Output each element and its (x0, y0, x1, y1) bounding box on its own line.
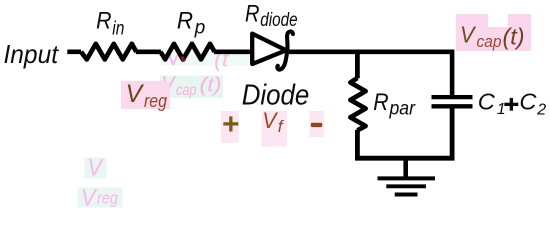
svg-text:R: R (96, 8, 111, 35)
svg-text:R: R (245, 0, 260, 27)
svg-text:R: R (177, 8, 193, 35)
svg-text:R: R (373, 89, 388, 116)
svg-text:V: V (126, 80, 145, 108)
svg-text:C: C (519, 89, 537, 115)
svg-text:reg: reg (144, 90, 168, 111)
svg-text:reg: reg (97, 189, 118, 208)
svg-text:2: 2 (536, 101, 546, 118)
svg-text:V: V (81, 185, 97, 211)
svg-text:C: C (478, 89, 496, 115)
svg-text:(t): (t) (200, 74, 222, 97)
svg-text:Diode: Diode (242, 80, 310, 112)
svg-text:Input: Input (4, 39, 60, 69)
svg-text:diode: diode (260, 10, 297, 31)
svg-text:par: par (389, 98, 417, 120)
svg-text:(t): (t) (503, 24, 525, 50)
svg-text:cap: cap (477, 33, 502, 51)
svg-text:+: + (222, 108, 240, 141)
svg-text:cap: cap (176, 82, 197, 99)
svg-text:V: V (460, 22, 477, 48)
svg-text:V: V (262, 108, 278, 133)
svg-text:in: in (112, 18, 124, 39)
svg-text:p: p (194, 18, 205, 39)
svg-text:V: V (88, 155, 104, 182)
